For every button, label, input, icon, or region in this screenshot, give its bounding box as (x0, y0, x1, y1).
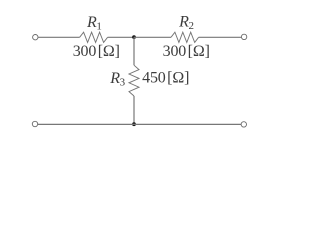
svg-text:450[Ω]: 450[Ω] (142, 69, 189, 86)
wire R2 to top-right terminal (199, 36, 242, 38)
wire bottom rail (38, 123, 241, 125)
node A junction dot (132, 35, 136, 39)
terminal top-right (241, 34, 246, 39)
svg-text:2: 2 (189, 20, 195, 32)
wire node A to R2 (134, 36, 171, 38)
svg-text:300[Ω]: 300[Ω] (163, 43, 210, 60)
wire R1 to node A (108, 36, 134, 38)
resistor R1 (80, 32, 108, 42)
svg-text:300[Ω]: 300[Ω] (73, 43, 120, 60)
node B junction dot (132, 122, 136, 126)
terminal bottom-left (32, 121, 37, 126)
terminal bottom-right (241, 122, 246, 127)
resistor R2 (171, 32, 199, 42)
svg-text:3: 3 (120, 76, 126, 88)
svg-text:R: R (178, 13, 189, 30)
wire top-left to R1 (38, 36, 80, 38)
svg-text:1: 1 (96, 20, 102, 32)
wire node A down to R3 (133, 37, 135, 65)
svg-text:R: R (109, 70, 120, 87)
wire R3 to node B (133, 96, 135, 124)
terminal top-left (33, 35, 38, 40)
svg-text:R: R (86, 14, 97, 31)
resistor R3 (vertical) (129, 65, 139, 96)
